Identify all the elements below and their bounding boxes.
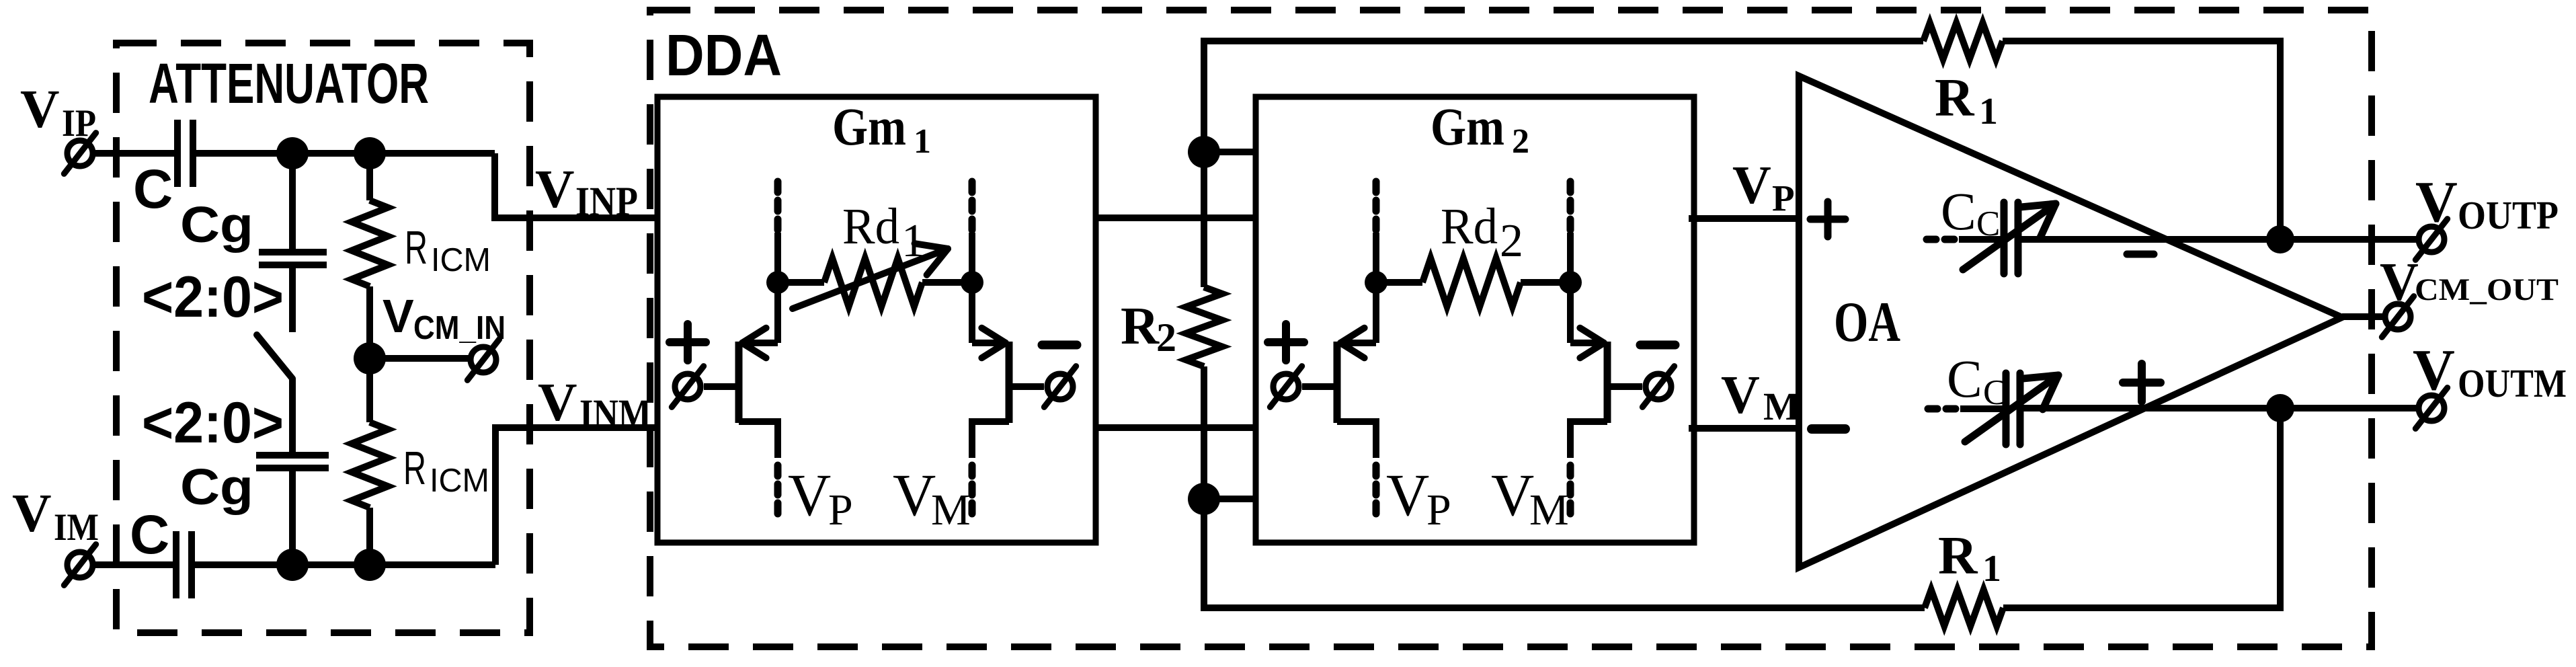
Gm1 right drain dashed tail [969, 182, 976, 233]
label R2 [1121, 297, 1176, 360]
node Rd2 left junction dot [1365, 271, 1387, 294]
resistor Rd2 [1422, 258, 1521, 307]
svg-text:V: V [12, 483, 52, 543]
svg-text:M: M [931, 485, 971, 535]
wire Cg bottom lead [289, 468, 296, 565]
wire switch to Cg bottom [289, 379, 296, 455]
capacitor CC (top) [2004, 202, 2018, 274]
svg-text:Gm: Gm [1431, 98, 1504, 157]
Gm1 left drain dashed tail [774, 182, 782, 233]
node VCM_IN junction dot [354, 342, 386, 375]
wire Gm2 left drain up [1373, 282, 1379, 343]
label Gm2 VP [1386, 463, 1451, 535]
node R2 bottom junction dot [1188, 483, 1220, 515]
transistor Gm2 right source arm [1570, 422, 1607, 458]
svg-text:C: C [1983, 373, 2007, 412]
svg-text:P: P [1426, 485, 1451, 535]
svg-text:2: 2 [1500, 215, 1523, 267]
capacitor CC (top) lead [1959, 236, 2001, 243]
svg-text:ATTENUATOR: ATTENUATOR [149, 52, 429, 115]
Gm2 minus sign [1640, 341, 1675, 350]
label Gm1 VP [788, 463, 853, 535]
svg-text:V: V [2380, 253, 2419, 312]
node VOUTP junction dot [2266, 225, 2294, 253]
capacitor CC (bottom) [2006, 373, 2020, 444]
wire Cg top to switch [289, 265, 296, 332]
wire VM to op-amp [1689, 425, 1799, 432]
svg-text:Cg: Cg [180, 196, 253, 253]
svg-text:CM_IN: CM_IN [413, 310, 506, 346]
svg-text:CM_OUT: CM_OUT [2415, 272, 2559, 307]
wire top row attenuator [196, 150, 495, 157]
transistor Gm2 right drain arm [1570, 340, 1604, 346]
svg-text:<2:0>: <2:0> [142, 391, 284, 455]
output plus sign [2123, 364, 2161, 401]
svg-text:M: M [1529, 485, 1569, 535]
label Gm1 VM [893, 463, 971, 535]
port VCM_OUT [2382, 297, 2413, 338]
node D junction dot (bottom RICM tap) [354, 549, 386, 581]
wire Gm1 right port to gate [1009, 383, 1044, 390]
Gm1 left drain lead [774, 233, 781, 282]
transistor Gm1 left arrow [742, 328, 766, 358]
label VP (op-amp input) [1732, 156, 1795, 219]
wire Gm2 left port to gate [1302, 383, 1337, 390]
op-amp OA triangle [1799, 76, 2342, 567]
resistor R2 top lead [1201, 152, 1207, 287]
svg-text:V: V [788, 463, 831, 528]
wire R2 bottom feedback corner [1204, 499, 1925, 608]
transistor Gm1 right drain arm [972, 340, 1006, 346]
svg-text:C: C [130, 504, 169, 565]
transistor Gm2 left drain arm [1340, 340, 1376, 346]
node B junction dot (top RICM tap) [354, 137, 386, 169]
transistor Gm1 right arrow [981, 328, 1006, 358]
resistor R1 (top) [1923, 23, 2003, 59]
label VCM_OUT [2380, 253, 2559, 312]
svg-text:V: V [1386, 463, 1429, 528]
svg-text:C: C [133, 159, 173, 220]
port VOUTM [2415, 388, 2447, 429]
OA minus input sign [1812, 424, 1845, 434]
capacitor C (bottom input) [176, 531, 192, 598]
node C junction dot (bottom Cg tap) [276, 549, 309, 581]
resistor Rd1 left lead [778, 279, 824, 286]
wire OA output stub [2342, 313, 2385, 320]
svg-text:1: 1 [1979, 91, 1998, 132]
svg-text:C: C [1947, 350, 1982, 409]
wire Gm1 left port to gate [704, 383, 739, 390]
port Gm1 inverting input [1044, 366, 1076, 407]
transistor Gm2 left gate bar [1334, 342, 1341, 423]
label CC (top) [1941, 183, 2000, 243]
label VOUTP [2415, 169, 2559, 237]
transistor Gm1 left gate bar [735, 342, 743, 423]
transistor Gm2 left arrow [1340, 328, 1365, 358]
label Rd2 [1441, 198, 1523, 267]
capacitor CC (bottom) lead [1960, 405, 2003, 412]
wire R2 top stub to Gm2 [1204, 149, 1256, 155]
label Gm2 [1431, 98, 1529, 161]
svg-text:IM: IM [54, 506, 99, 549]
svg-text:R: R [1935, 67, 1975, 128]
wire VOUTP [2021, 236, 2419, 243]
wire R2 bottom stub to Gm2 [1204, 496, 1256, 502]
Gm2 left drain dashed tail [1373, 182, 1380, 233]
label CC (bottom) [1947, 350, 2007, 412]
svg-text:Gm: Gm [832, 98, 906, 157]
label VINP [535, 159, 638, 225]
attenuator dashed box [116, 43, 530, 633]
Gm2 plus sign [1268, 324, 1304, 360]
svg-text:V: V [1491, 463, 1534, 528]
Gm1 minus sign [1042, 341, 1077, 350]
svg-text:INM: INM [579, 392, 651, 437]
svg-text:INP: INP [575, 180, 638, 225]
transistor Gm2 right gate bar [1604, 342, 1611, 423]
wire Gm1 output P to Gm2 [1096, 214, 1256, 221]
resistor RICM (bottom) lead [366, 358, 373, 422]
label R1 (top) [1935, 67, 1998, 132]
Gm1 right drain lead [969, 233, 975, 282]
label R1 (bottom) [1938, 525, 2001, 590]
label RICM (bottom) [403, 442, 489, 499]
wire Gm1 left drain up [774, 282, 781, 343]
wire VOUTM [2023, 405, 2419, 411]
capacitor CC (bottom) dashed stub [1928, 405, 1956, 413]
port VIP [64, 133, 95, 174]
svg-text:V: V [383, 290, 414, 342]
svg-text:C: C [1976, 204, 2000, 243]
svg-text:Rd: Rd [842, 198, 899, 255]
label Gm1 [832, 98, 931, 161]
svg-text:V: V [1732, 156, 1771, 215]
resistor RICM (bottom) [352, 422, 388, 508]
svg-text:Rd: Rd [1441, 198, 1498, 255]
wire Gm2 right drain up [1567, 282, 1574, 343]
svg-text:V: V [2413, 337, 2455, 402]
node Rd2 right junction dot [1559, 271, 1582, 294]
svg-text:ICM: ICM [430, 463, 489, 499]
op-amp Gm2 box [1256, 97, 1694, 543]
svg-text:R: R [1938, 525, 1978, 586]
wire R1 top to output [2003, 41, 2280, 239]
resistor Rd2 left lead [1376, 279, 1422, 286]
resistor RICM (top) [352, 200, 388, 286]
svg-text:DDA: DDA [666, 23, 782, 88]
svg-text:V: V [20, 79, 60, 139]
resistor RICM bottom lead [366, 508, 373, 565]
node VOUTM junction dot [2266, 394, 2294, 422]
resistor RICM (top) lead [366, 153, 373, 200]
port VIM [64, 545, 95, 586]
svg-text:V: V [1721, 366, 1760, 425]
resistor R2 bottom lead [1201, 366, 1207, 499]
wire VP to op-amp [1689, 215, 1799, 222]
svg-text:1: 1 [914, 122, 931, 161]
svg-text:R: R [1121, 297, 1160, 356]
label Rd1 [842, 198, 925, 267]
wire Cg top lead [289, 153, 296, 252]
Gm2 VP dashed tail [1373, 465, 1380, 516]
svg-text:ICM: ICM [431, 242, 491, 278]
wire Gm1 right drain up [969, 282, 975, 343]
label VM (op-amp input) [1721, 366, 1800, 428]
svg-text:V: V [2415, 169, 2458, 234]
svg-text:C: C [1941, 183, 1976, 241]
svg-text:R: R [403, 442, 426, 494]
wire VINM step [495, 428, 657, 565]
label Gm2 VM [1491, 463, 1569, 535]
Gm1 VM dashed tail [969, 465, 976, 516]
port Gm2 inverting input [1642, 366, 1674, 407]
Rd1 variable arrow [793, 243, 948, 309]
node A junction dot (top Cg tap) [276, 137, 309, 169]
capacitor Cg (top) [259, 252, 327, 265]
label VINM [538, 372, 651, 437]
label VOUTM [2413, 337, 2567, 405]
resistor RICM top to VCM_IN node [366, 286, 373, 358]
Gm2 right drain lead [1567, 233, 1574, 282]
svg-text:1: 1 [1982, 548, 2001, 590]
svg-text:Cg: Cg [180, 459, 253, 515]
node VIP label [20, 79, 96, 145]
svg-text:V: V [535, 159, 575, 219]
Gm2 VM dashed tail [1567, 465, 1574, 516]
Gm1 plus sign [670, 324, 706, 360]
resistor R2 [1186, 287, 1222, 366]
port VCM_IN [467, 340, 499, 381]
svg-text:V: V [893, 463, 936, 528]
svg-text:OUTP: OUTP [2458, 193, 2559, 237]
port Gm2 noninverting input [1270, 366, 1301, 407]
svg-text:<2:0>: <2:0> [142, 265, 284, 329]
output minus sign [2127, 251, 2154, 258]
capacitor C (top input) [177, 120, 193, 187]
wire VIM to capacitor C [93, 561, 173, 568]
node Rd1 left junction dot [766, 271, 789, 294]
svg-text:OUTM: OUTM [2458, 361, 2567, 405]
resistor R1 (bottom) [1925, 590, 2003, 626]
capacitor CC (top) variable arrow [1963, 204, 2056, 270]
switch lever [257, 335, 292, 379]
wire VIP to capacitor C [93, 150, 175, 157]
svg-text:V: V [538, 372, 577, 432]
capacitor CC (top) dashed stub [1927, 236, 1954, 243]
port VOUTP [2415, 219, 2447, 260]
DDA dashed box [650, 10, 2372, 647]
Gm1 VP dashed tail [774, 465, 782, 516]
svg-text:2: 2 [1512, 122, 1529, 161]
transistor Gm1 right gate bar [1006, 342, 1013, 423]
svg-text:M: M [1763, 385, 1800, 428]
resistor Rd1 [824, 258, 922, 307]
svg-text:2: 2 [1156, 315, 1176, 360]
wire Gm2 right port to gate [1607, 383, 1642, 390]
Gm2 right drain dashed tail [1567, 182, 1574, 233]
transistor Gm1 right source arm [972, 422, 1009, 458]
wire VINP step [495, 153, 657, 218]
label VCM_IN [383, 290, 506, 346]
label RICM (top) [405, 221, 491, 278]
transistor Gm1 left source arm [739, 422, 778, 458]
OA plus input sign [1810, 202, 1845, 237]
wire bottom row attenuator [194, 561, 495, 568]
svg-text:P: P [828, 485, 853, 535]
op-amp Gm1 box [657, 97, 1096, 543]
Gm2 left drain lead [1373, 233, 1379, 282]
capacitor Cg (bottom) [256, 455, 329, 468]
transistor Gm1 left drain arm [742, 340, 778, 346]
node VIM label [12, 483, 99, 549]
transistor Gm2 right arrow [1580, 328, 1604, 358]
svg-text:P: P [1772, 178, 1795, 219]
capacitor CC (bottom) variable arrow [1965, 375, 2058, 442]
node R2 top junction dot [1188, 136, 1220, 168]
resistor Rd2 right lead [1521, 279, 1570, 286]
wire R1 bottom to output [2003, 407, 2280, 608]
node Rd1 right junction dot [961, 271, 983, 294]
wire VCM_IN [370, 355, 469, 362]
wire R2 top feedback corner [1204, 41, 1923, 152]
svg-text:OA: OA [1834, 290, 1900, 354]
wire Gm1 output M to Gm2 [1096, 424, 1256, 431]
transistor Gm2 left source arm [1337, 422, 1376, 458]
port Gm1 noninverting input [672, 366, 703, 407]
resistor Rd1 right lead [922, 279, 972, 286]
svg-text:R: R [405, 221, 428, 274]
